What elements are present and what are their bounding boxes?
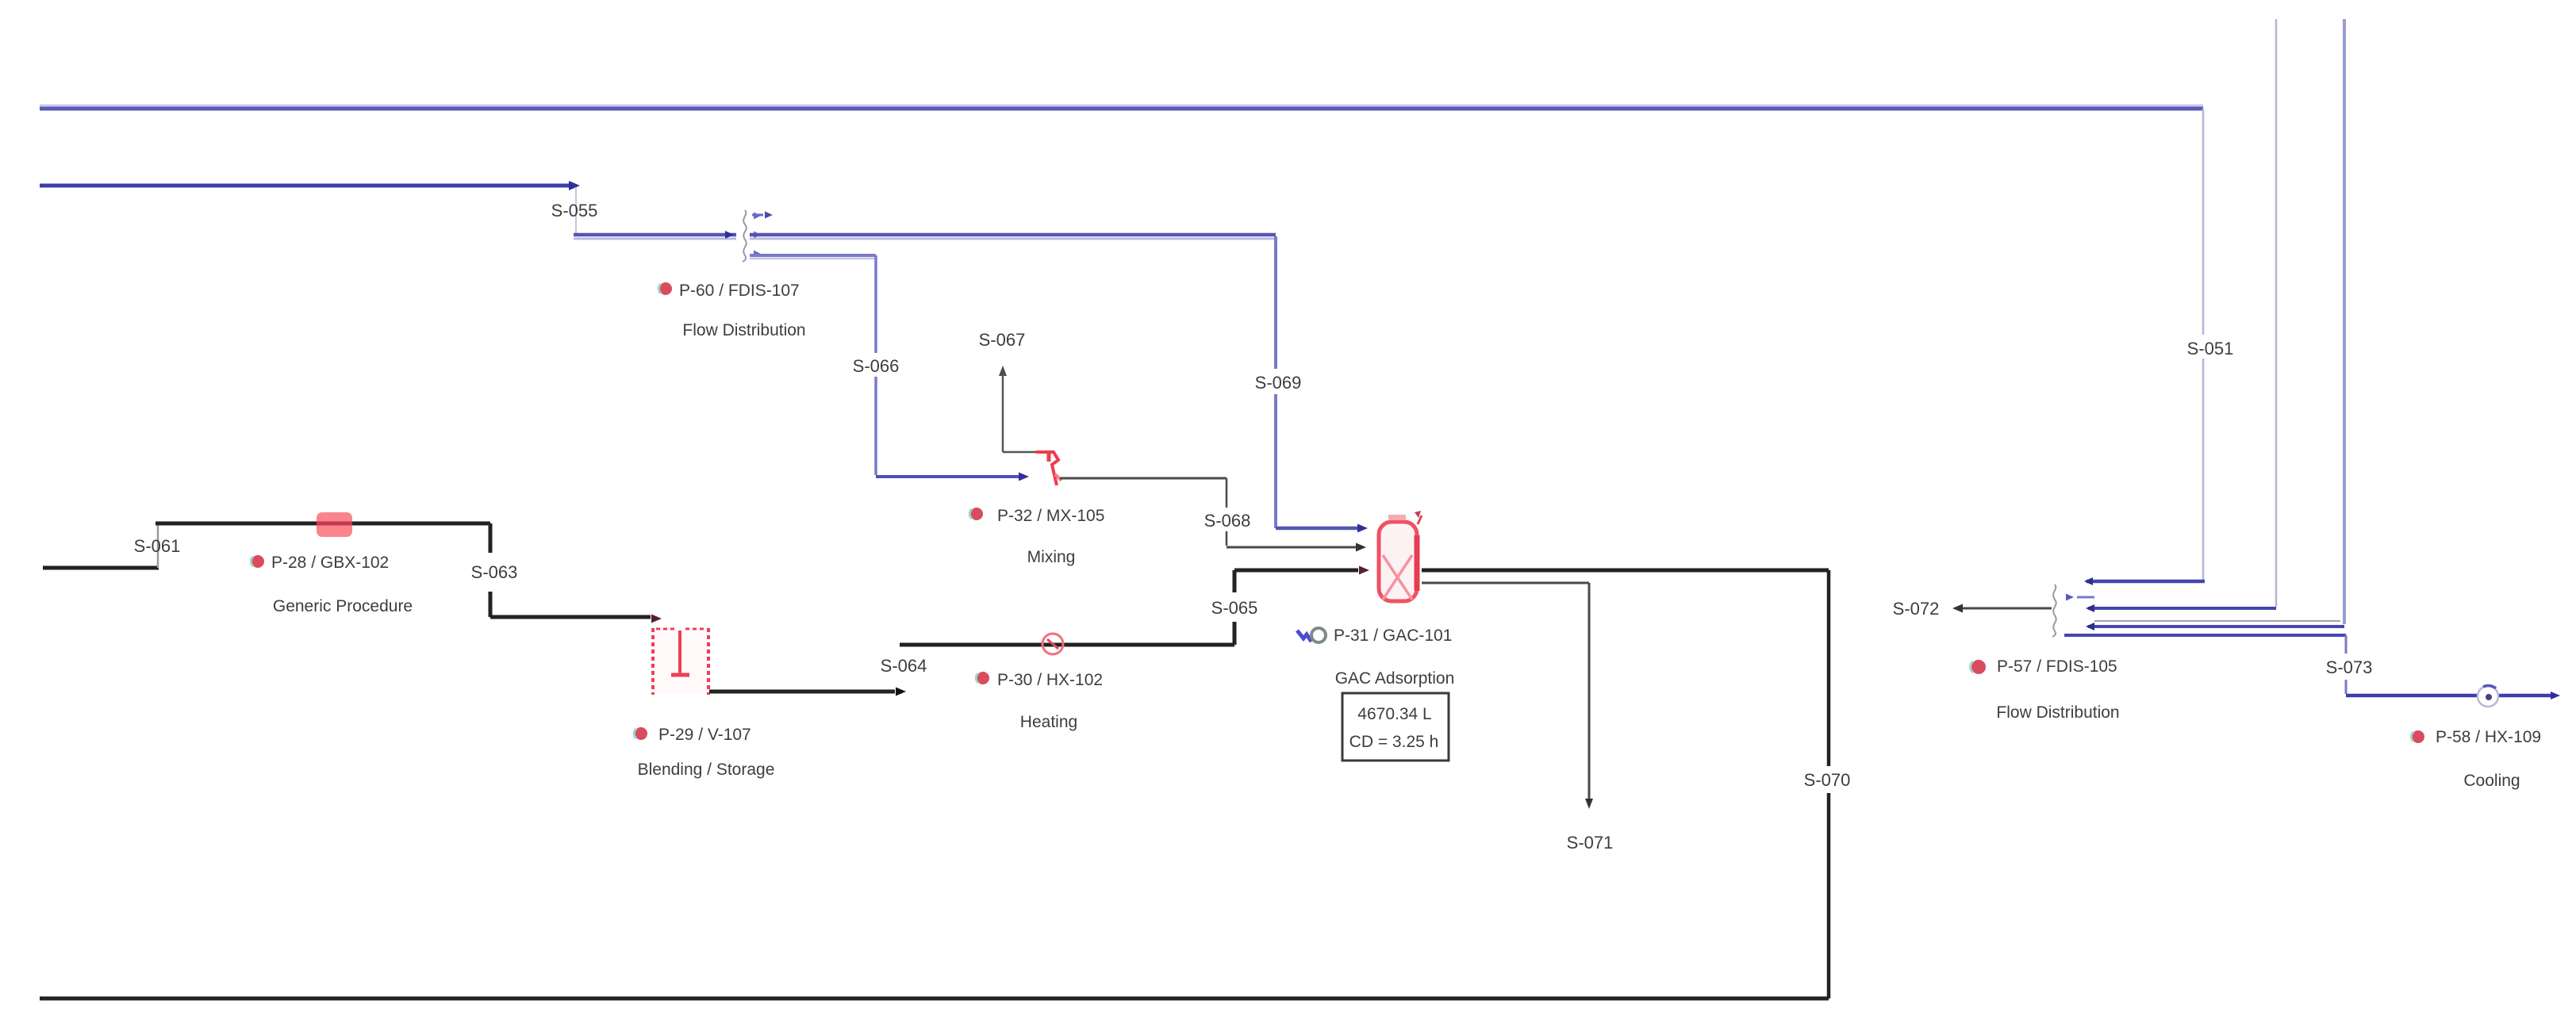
svg-text:S-067: S-067	[979, 330, 1026, 350]
svg-text:P-58 / HX-109: P-58 / HX-109	[2436, 728, 2541, 746]
svg-text:S-070: S-070	[1804, 770, 1851, 790]
svg-text:P-29 / V-107: P-29 / V-107	[658, 726, 751, 744]
stream S-055 inlet line	[40, 181, 580, 190]
info box GAC-101	[1342, 693, 1449, 761]
icon P-57	[1971, 660, 1986, 674]
heat exchanger HX-102	[1042, 634, 1063, 654]
flow splitter FDIS-105	[2052, 584, 2340, 637]
stream S-055 to splitter	[574, 231, 736, 239]
svg-text:Flow Distribution: Flow Distribution	[1996, 703, 2119, 722]
svg-text:Cooling: Cooling	[2463, 772, 2520, 790]
svg-text:Heating: Heating	[1020, 713, 1077, 731]
icon P-30	[976, 672, 989, 684]
svg-text:S-069: S-069	[1255, 373, 1302, 393]
stream S-070	[40, 570, 1829, 998]
icon P-29	[634, 727, 647, 740]
heat exchanger HX-109	[2478, 686, 2498, 707]
svg-text:S-055: S-055	[551, 201, 598, 220]
wire GBX line overlay	[317, 522, 352, 526]
stream S-069	[750, 235, 1368, 533]
label S-070	[1801, 767, 1855, 791]
stream S-051 vertical	[2084, 109, 2205, 585]
stream S-065	[1234, 566, 1369, 646]
mixer MX-105	[1036, 450, 1061, 485]
svg-text:S-051: S-051	[2187, 339, 2234, 358]
wire top blue feed line	[40, 105, 2203, 109]
svg-text:S-061: S-061	[134, 536, 181, 556]
svg-text:4670.34 L: 4670.34 L	[1357, 705, 1431, 723]
stream S-064 to S-065 heating line	[900, 643, 1234, 647]
wire right vertical feed 2	[2343, 19, 2346, 624]
adsorption column GAC-101	[1379, 511, 1422, 601]
svg-text:S-073: S-073	[2326, 657, 2373, 677]
icon P-60	[658, 282, 672, 295]
generic box GBX-102	[317, 512, 352, 537]
icon P-58	[2411, 730, 2424, 743]
stream into FDIS-105 from feed 1	[2086, 604, 2276, 612]
stream S-073	[2064, 635, 2560, 699]
svg-text:Mixing: Mixing	[1027, 548, 1076, 566]
svg-text:GAC Adsorption: GAC Adsorption	[1335, 669, 1455, 688]
stream S-064	[709, 688, 906, 696]
stream S-061 to GBX-102	[155, 522, 490, 526]
icon P-31 gray	[1311, 628, 1326, 642]
svg-text:S-063: S-063	[471, 562, 518, 582]
svg-text:S-064: S-064	[881, 656, 927, 676]
icon P-28	[251, 555, 264, 568]
label S-068	[1201, 508, 1252, 531]
stream S-061 inlet stub	[43, 566, 159, 570]
label S-069	[1252, 369, 1303, 394]
stream S-066	[750, 255, 1029, 481]
label S-073	[2325, 654, 2374, 678]
icon P-32	[969, 508, 983, 520]
stream S-067	[999, 366, 1047, 452]
svg-text:P-28 / GBX-102: P-28 / GBX-102	[271, 554, 389, 572]
wire right vertical feed 1	[2275, 19, 2278, 607]
svg-text:P-60 / FDIS-107: P-60 / FDIS-107	[679, 282, 800, 300]
stream S-072	[1952, 604, 2052, 613]
vessel V-107	[653, 628, 710, 695]
label S-065	[1207, 594, 1260, 618]
wire S-055 connector	[575, 187, 577, 233]
svg-text:S-072: S-072	[1893, 599, 1940, 619]
stream S-068	[1060, 478, 1366, 552]
svg-text:P-30 / HX-102: P-30 / HX-102	[997, 671, 1103, 689]
stream S-071	[1422, 583, 1593, 809]
svg-text:Flow Distribution: Flow Distribution	[682, 321, 805, 339]
stream S-063	[490, 523, 662, 623]
svg-text:S-066: S-066	[853, 356, 900, 376]
svg-text:Blending / Storage: Blending / Storage	[638, 761, 775, 779]
stream FDIS-107 top stub	[752, 212, 773, 219]
wire S-061 riser	[157, 523, 159, 568]
svg-text:S-065: S-065	[1211, 598, 1258, 618]
svg-text:P-57 / FDIS-105: P-57 / FDIS-105	[1997, 657, 2117, 676]
flow splitter FDIS-107	[743, 210, 761, 262]
stream into FDIS-105 from feed 2	[2086, 623, 2344, 630]
svg-text:S-068: S-068	[1204, 511, 1251, 531]
label S-051	[2182, 335, 2237, 358]
svg-text:Generic Procedure: Generic Procedure	[273, 597, 413, 615]
svg-text:S-071: S-071	[1567, 833, 1614, 853]
svg-text:P-32 / MX-105: P-32 / MX-105	[997, 507, 1104, 525]
svg-text:CD = 3.25 h: CD = 3.25 h	[1349, 733, 1439, 751]
label S-066	[850, 353, 901, 377]
svg-text:P-31 / GAC-101: P-31 / GAC-101	[1334, 627, 1452, 645]
icon P-31 blue	[1297, 630, 1311, 642]
